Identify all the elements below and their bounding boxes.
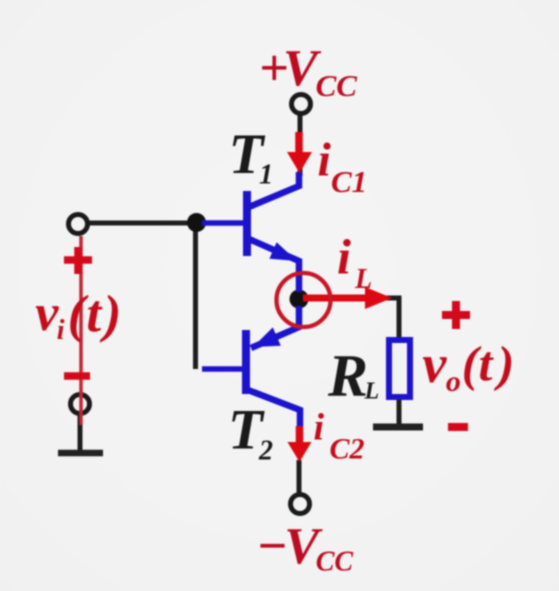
svg-text:L: L xyxy=(354,264,372,295)
label vi(t) xyxy=(35,285,121,346)
svg-text:R: R xyxy=(327,343,368,409)
current arrow iL xyxy=(303,287,392,309)
node junction base xyxy=(187,213,206,232)
current arrow iC1 xyxy=(287,132,312,173)
wire top supply vertical xyxy=(298,113,303,176)
label RL xyxy=(327,343,379,409)
svg-text:i: i xyxy=(314,407,325,449)
svg-text:C1: C1 xyxy=(331,164,367,199)
wire bottom supply vertical xyxy=(297,460,302,494)
label vo(t) xyxy=(422,334,514,398)
transistor T2 emitter arrowhead xyxy=(253,327,281,347)
terminal -VCC xyxy=(291,495,310,514)
svg-text:1: 1 xyxy=(259,160,273,191)
source vi line xyxy=(79,236,83,425)
transistor T1 emitter arrowhead xyxy=(269,242,297,261)
output vo minus xyxy=(448,423,468,431)
ground right xyxy=(373,424,423,431)
svg-text:2: 2 xyxy=(258,436,273,467)
label T2 xyxy=(228,399,273,467)
svg-text:i: i xyxy=(318,134,332,187)
wire RL bottom xyxy=(397,396,402,428)
resistor RL xyxy=(389,340,410,397)
terminal input top xyxy=(69,215,88,234)
svg-text:i: i xyxy=(337,229,351,285)
label iC1 xyxy=(318,134,368,200)
svg-text:v: v xyxy=(422,334,447,394)
terminal input bottom xyxy=(71,395,90,414)
svg-text:v: v xyxy=(35,285,59,342)
source vi minus xyxy=(64,372,90,380)
label iL xyxy=(337,229,372,296)
source vi plus xyxy=(64,247,92,274)
wire left vertical to T2 base xyxy=(193,221,198,369)
wire output node to RL xyxy=(299,298,399,340)
transistor T1 xyxy=(202,172,299,292)
node output xyxy=(290,290,309,309)
svg-text:): ) xyxy=(100,285,122,343)
svg-text:−: − xyxy=(256,518,288,575)
svg-text:t: t xyxy=(479,336,495,392)
svg-text:CC: CC xyxy=(316,68,358,103)
wire input horizontal xyxy=(88,221,200,226)
transistor T2 xyxy=(202,306,300,427)
svg-text:): ) xyxy=(494,336,515,392)
label T1 xyxy=(229,123,274,191)
terminal +VCC xyxy=(292,95,311,114)
svg-text:t: t xyxy=(86,285,103,343)
node highlight circle xyxy=(277,273,331,327)
svg-text:o: o xyxy=(446,365,461,398)
label iC2 xyxy=(314,407,365,466)
current arrow iC2 xyxy=(288,426,312,462)
svg-text:CC: CC xyxy=(316,547,354,578)
svg-text:i: i xyxy=(57,315,65,346)
label -VCC xyxy=(256,518,353,578)
wire source lower xyxy=(78,413,83,453)
output vo plus xyxy=(442,301,470,329)
svg-text:C2: C2 xyxy=(330,433,365,466)
svg-text:L: L xyxy=(364,379,380,405)
label +VCC xyxy=(259,40,357,103)
ground left xyxy=(58,450,103,457)
